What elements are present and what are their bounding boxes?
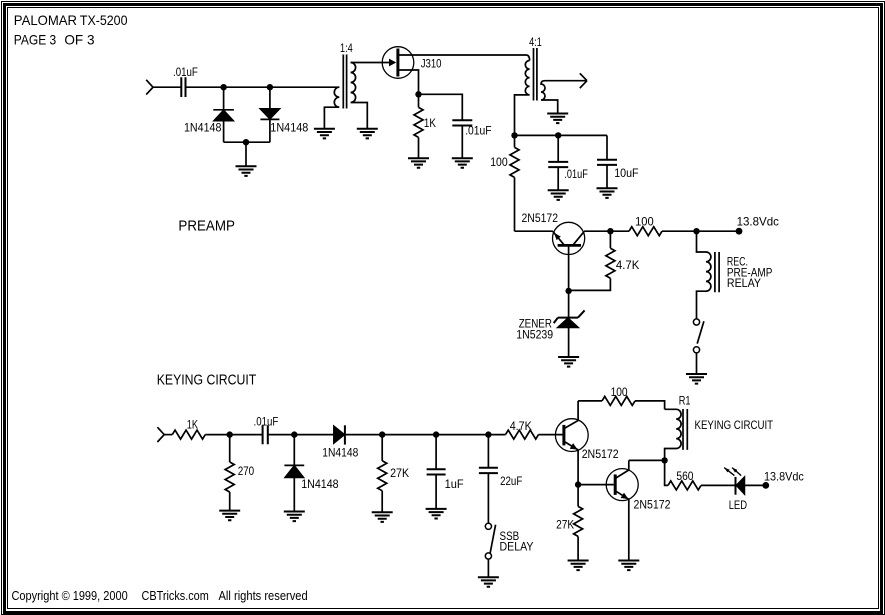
svg-text:1N4148: 1N4148 bbox=[322, 446, 358, 460]
svg-text:J310: J310 bbox=[421, 57, 442, 71]
resistor 1K (keying) bbox=[172, 418, 205, 439]
svg-text:13.8Vdc: 13.8Vdc bbox=[737, 214, 779, 228]
node D source junction bbox=[415, 91, 421, 97]
svg-text:560: 560 bbox=[676, 469, 693, 483]
capacitor .01uF (preamp input) bbox=[173, 65, 198, 97]
node IN2 input connector (keying) bbox=[157, 427, 164, 442]
wire to C2 bbox=[419, 94, 463, 120]
ground (diode rail) bbox=[236, 166, 257, 176]
svg-text:2N5172: 2N5172 bbox=[634, 497, 671, 511]
wire supply bus bbox=[515, 134, 608, 136]
ground (1uF) bbox=[426, 509, 447, 519]
ground (27K right) bbox=[568, 561, 589, 571]
ground (27K) bbox=[372, 512, 393, 522]
ground (SW1) bbox=[686, 374, 707, 384]
svg-text:OF 3: OF 3 bbox=[64, 31, 94, 47]
svg-text:All rights reserved: All rights reserved bbox=[219, 589, 308, 603]
svg-text:4:1: 4:1 bbox=[529, 35, 542, 49]
svg-text:LED: LED bbox=[729, 498, 748, 512]
svg-text:1K: 1K bbox=[187, 418, 198, 432]
wire bbox=[345, 434, 506, 436]
node 13.8Vdc terminal bbox=[736, 214, 779, 234]
wire source bbox=[399, 70, 419, 107]
node J bbox=[227, 431, 233, 437]
node O emitter junction bbox=[575, 481, 581, 487]
node A bbox=[220, 84, 226, 90]
svg-text:.01uF: .01uF bbox=[254, 414, 279, 428]
svg-text:.01uF: .01uF bbox=[564, 167, 587, 181]
resistor 27K (keying left) bbox=[378, 435, 409, 513]
wire collector top bbox=[578, 400, 602, 402]
svg-text:27K: 27K bbox=[556, 517, 574, 531]
svg-text:PREAMP: PREAMP bbox=[178, 218, 235, 235]
ground (D4) bbox=[284, 512, 305, 522]
node M bbox=[433, 431, 439, 437]
capacitor .01uF (bus bypass) bbox=[548, 135, 588, 190]
resistor 100 (keying) bbox=[602, 385, 635, 405]
resistor 100 (vertical) bbox=[490, 135, 519, 231]
transistor Q2 2N5172 (keying driver) bbox=[555, 401, 619, 485]
transformer T2 4:1 bbox=[515, 35, 558, 135]
ground (SW2) bbox=[478, 577, 499, 587]
svg-text:KEYING CIRCUIT: KEYING CIRCUIT bbox=[695, 418, 774, 432]
transistor J310 JFET bbox=[382, 47, 442, 79]
svg-text:TX-5200: TX-5200 bbox=[80, 12, 128, 28]
svg-text:1K: 1K bbox=[424, 116, 436, 130]
wire bbox=[268, 434, 334, 436]
ground (zener) bbox=[558, 357, 579, 367]
resistor 4.7K bbox=[569, 231, 640, 290]
wire output arrow bbox=[545, 73, 587, 88]
node E bus left bbox=[511, 132, 517, 138]
wire to Q3 collector bbox=[629, 459, 665, 461]
svg-text:22uF: 22uF bbox=[500, 474, 522, 488]
transistor Q1 2N5172 (preamp) bbox=[522, 211, 585, 291]
diode D4 1N4148 (shunt) bbox=[284, 435, 338, 512]
svg-text:1N4148: 1N4148 bbox=[301, 477, 339, 491]
resistor 100 (horizontal to 13.8V) bbox=[629, 214, 662, 235]
svg-text:100: 100 bbox=[611, 385, 628, 399]
svg-text:1N4148: 1N4148 bbox=[184, 120, 222, 134]
wire bbox=[635, 401, 665, 409]
node F bus mid bbox=[555, 132, 561, 138]
diode D3 1N4148 (series) bbox=[322, 425, 358, 459]
svg-text:4.7K: 4.7K bbox=[510, 419, 532, 433]
svg-text:2N5172: 2N5172 bbox=[582, 447, 619, 461]
resistor 27K (keying right) bbox=[556, 485, 583, 561]
svg-text:PALOMAR: PALOMAR bbox=[14, 12, 77, 28]
resistor 4.7K (keying) bbox=[506, 419, 563, 439]
capacitor 1uF bbox=[427, 435, 464, 509]
node L bbox=[379, 431, 385, 437]
switch SW1 relay contact bbox=[693, 319, 704, 374]
node N bbox=[485, 431, 491, 437]
wire bbox=[164, 434, 172, 436]
resistor 560 bbox=[665, 460, 736, 490]
node IN1 input connector (preamp) bbox=[146, 80, 153, 95]
capacitor .01uF (source bypass) bbox=[452, 120, 491, 158]
capacitor 10uF bbox=[597, 135, 639, 188]
diode D2 1N4148 (limiter, cathode down) bbox=[260, 87, 308, 142]
ground (T1 primary) bbox=[314, 129, 335, 139]
title text bbox=[14, 12, 128, 47]
svg-text:2N5172: 2N5172 bbox=[522, 211, 559, 225]
diode LED bbox=[724, 468, 766, 513]
svg-text:27K: 27K bbox=[390, 466, 409, 480]
wire to Q1 emitter bbox=[515, 230, 553, 232]
svg-text:100: 100 bbox=[490, 155, 508, 169]
ground (10uF) bbox=[597, 188, 618, 198]
node G collector junction bbox=[607, 228, 613, 234]
copyright text bbox=[12, 589, 308, 603]
node K bbox=[291, 431, 297, 437]
wire bbox=[205, 434, 262, 436]
svg-text:.01uF: .01uF bbox=[465, 124, 491, 138]
svg-text:R1: R1 bbox=[679, 393, 691, 407]
node B bbox=[267, 84, 273, 90]
node P relay junction bbox=[661, 457, 667, 463]
ground (T1 secondary) bbox=[357, 129, 378, 139]
relay R1 KEYING CIRCUIT coil bbox=[665, 393, 774, 460]
wire bbox=[187, 86, 340, 88]
transistor Q3 2N5172 (keying output) bbox=[606, 460, 671, 560]
diode D1 1N4148 (limiter, cathode up) bbox=[184, 87, 234, 142]
capacitor .01uF (keying) bbox=[254, 414, 279, 444]
svg-text:100: 100 bbox=[635, 214, 654, 228]
svg-text:10uF: 10uF bbox=[614, 166, 638, 180]
ground (C3) bbox=[548, 190, 569, 200]
ground (1K) bbox=[408, 158, 429, 168]
svg-text:13.8Vdc: 13.8Vdc bbox=[764, 470, 804, 484]
wire gate bbox=[351, 62, 390, 64]
svg-text:1N4148: 1N4148 bbox=[270, 120, 308, 134]
svg-text:1:4: 1:4 bbox=[340, 41, 353, 55]
svg-text:DELAY: DELAY bbox=[500, 540, 534, 554]
svg-text:CBTricks.com: CBTricks.com bbox=[142, 589, 209, 603]
resistor 270 bbox=[225, 435, 254, 511]
svg-text:270: 270 bbox=[238, 464, 255, 478]
wire collector bbox=[584, 230, 629, 232]
node I relay junction bbox=[693, 228, 699, 234]
capacitor 22uF bbox=[479, 435, 522, 524]
wire bbox=[153, 86, 181, 88]
ground (C2) bbox=[452, 158, 473, 168]
svg-text:.01uF: .01uF bbox=[173, 65, 198, 79]
node H base junction bbox=[565, 288, 571, 294]
svg-text:RELAY: RELAY bbox=[727, 276, 761, 290]
transformer T1 1:4 bbox=[324, 41, 367, 129]
wire drain to T2 bbox=[399, 55, 530, 61]
svg-text:4.7K: 4.7K bbox=[616, 258, 639, 272]
relay K1 REC PRE-AMP RELAY coil bbox=[697, 231, 773, 319]
svg-text:KEYING CIRCUIT: KEYING CIRCUIT bbox=[157, 371, 257, 388]
svg-text:Copyright © 1999, 2000: Copyright © 1999, 2000 bbox=[12, 589, 128, 603]
switch SW2 SSB DELAY bbox=[485, 523, 533, 577]
wire diode bottom rail bbox=[224, 142, 270, 166]
wire to supply bbox=[662, 230, 739, 232]
ground (Q3 emitter) bbox=[618, 561, 639, 571]
ground (T2 secondary) bbox=[547, 114, 568, 124]
ground (270) bbox=[219, 511, 240, 521]
node C rail junction bbox=[243, 139, 249, 145]
diode D5 zener 1N5239 bbox=[516, 291, 584, 357]
svg-text:PAGE 3: PAGE 3 bbox=[14, 31, 57, 47]
svg-text:1uF: 1uF bbox=[445, 477, 464, 491]
wire Q2 to Q3 base bbox=[578, 484, 614, 486]
svg-text:1N5239: 1N5239 bbox=[516, 328, 553, 342]
resistor 1K bbox=[414, 107, 436, 158]
node 13.8Vdc terminal (keying) bbox=[762, 470, 803, 489]
